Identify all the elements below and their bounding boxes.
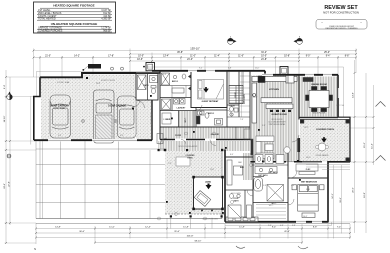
svg-text:STONE PAVERS: STONE PAVERS [316, 154, 330, 157]
svg-text:LAUNDRY: LAUNDRY [177, 107, 187, 110]
svg-text:1-CAR GARAGE: 1-CAR GARAGE [150, 112, 153, 126]
svg-text:DINING ROOM: DINING ROOM [311, 84, 326, 86]
entry landing rect on patio [176, 157, 190, 166]
svg-text:7'-4": 7'-4" [337, 227, 342, 229]
pantry walls [238, 71, 240, 117]
svg-text:3'-8": 3'-8" [292, 225, 296, 227]
svg-text:11'-8": 11'-8" [239, 227, 245, 229]
svg-text:31'-2": 31'-2" [261, 52, 267, 54]
svg-text:68'-10": 68'-10" [195, 241, 202, 243]
svg-text:HEATED SQUARE FOOTAGE: HEATED SQUARE FOOTAGE [53, 4, 94, 8]
west wall window triangles [188, 74, 192, 79]
dining east wall [337, 75, 339, 117]
svg-text:3-CAR GARAGE: 3-CAR GARAGE [50, 105, 68, 108]
svg-text:BATH 3: BATH 3 [208, 112, 214, 115]
extension verticals [33, 49, 35, 78]
angled fireplace [194, 191, 211, 207]
left circle marker [7, 92, 13, 100]
svg-text:6'-4": 6'-4" [4, 85, 6, 90]
door swing arcs [134, 100, 300, 205]
svg-text:12'-2": 12'-2" [253, 97, 258, 99]
svg-text:PATIO: PATIO [187, 157, 193, 160]
svg-text:PWDR: PWDR [229, 106, 235, 108]
svg-text:14'-10": 14'-10" [4, 115, 6, 122]
svg-text:21'-0": 21'-0" [45, 56, 51, 58]
south wing partitions [252, 150, 254, 222]
bath2 fixtures left strip [162, 73, 186, 93]
svg-text:11'-0": 11'-0" [190, 56, 196, 58]
svg-text:13'-4": 13'-4" [163, 56, 169, 58]
svg-text:3'-6": 3'-6" [163, 119, 167, 121]
svg-text:27'-8": 27'-8" [8, 181, 10, 187]
svg-text:UN-HEATED SQUARE FOOTAGE: UN-HEATED SQUARE FOOTAGE [51, 22, 98, 26]
svg-text:BATH 2: BATH 2 [172, 80, 178, 83]
laundry appliances [162, 99, 186, 110]
svg-text:BAR: BAR [240, 166, 245, 169]
master bath fixtures [254, 155, 284, 202]
svg-text:8'-0": 8'-0" [230, 154, 234, 156]
small interior texts (labels smudge) [144, 80, 312, 205]
wood hatch: south walkway band [158, 141, 250, 151]
extra right-bottom dim verticals [334, 165, 342, 239]
svg-text:4" CONC. SLAB: 4" CONC. SLAB [57, 81, 70, 84]
wic rods [256, 205, 286, 219]
porch NE step [338, 117, 350, 162]
svg-text:22'-8": 22'-8" [96, 83, 101, 85]
porch column stipple (patio fireplace porch) [165, 150, 223, 214]
roof overhang thin contour [31, 67, 344, 226]
svg-text:16'-4": 16'-4" [303, 216, 308, 218]
garage west wall + jog [34, 77, 40, 140]
walkway posts [158, 149, 189, 151]
wood hatch: mud corridor [179, 111, 194, 130]
door note blob + leader above garage wall [82, 64, 145, 71]
svg-text:10'-0" CEILING HEIGHT: 10'-0" CEILING HEIGHT [268, 121, 285, 123]
svg-text:WOOD FLOOR: WOOD FLOOR [271, 119, 283, 121]
tick marks on top chains [33, 50, 358, 63]
svg-text:14'-2": 14'-2" [74, 56, 80, 58]
powder room fixtures [230, 107, 238, 117]
svg-text:9'-0": 9'-0" [306, 56, 311, 58]
tiny circled tags along patio [158, 132, 253, 220]
svg-text:7'-4": 7'-4" [240, 119, 244, 121]
svg-text:TOTAL HEATED: TOTAL HEATED [38, 18, 56, 21]
svg-text:11'-0": 11'-0" [109, 227, 115, 229]
svg-text:139'-10": 139'-10" [190, 47, 200, 51]
svg-text:BATH: BATH [234, 200, 240, 203]
svg-text:OUTDOOR KITCHEN: OUTDOOR KITCHEN [202, 219, 218, 221]
svg-text:30'-6": 30'-6" [79, 231, 85, 233]
svg-text:14'-8": 14'-8" [353, 92, 355, 98]
scattered tiny dimension texts interior [58, 68, 311, 227]
svg-text:11'-0": 11'-0" [255, 68, 260, 70]
svg-text:19'-2": 19'-2" [304, 127, 309, 129]
svg-text:10'-8": 10'-8" [284, 56, 290, 58]
svg-text:10'-0": 10'-0" [261, 56, 267, 58]
svg-text:W.I.C.: W.I.C. [185, 117, 187, 122]
right chevrons [376, 102, 386, 107]
window gaps in exterior walls [48, 70, 340, 223]
section marker 1 top [228, 36, 237, 44]
stair well [229, 86, 243, 104]
laundry / bath2 block [160, 97, 191, 99]
svg-text:COVERED PORCH: COVERED PORCH [316, 129, 335, 131]
svg-text:KITCHEN: KITCHEN [269, 89, 279, 91]
car 3 [118, 96, 137, 138]
middle north wall [152, 70, 265, 72]
svg-text:13'-0": 13'-0" [199, 114, 204, 116]
svg-text:W.I.C.: W.I.C. [269, 205, 274, 207]
hall north wall [160, 126, 250, 128]
guest suite [191, 71, 227, 108]
svg-text:11'-8": 11'-8" [210, 169, 215, 171]
svg-text:25'-0": 25'-0" [324, 52, 330, 54]
svg-text:103'-8": 103'-8" [187, 236, 194, 238]
extra core partitions / fixtures for density [157, 71, 250, 144]
svg-text:11'-4": 11'-4" [372, 143, 374, 149]
svg-text:45'-8": 45'-8" [177, 52, 183, 54]
outdoor lounge square room on porch [194, 177, 223, 209]
garage north wall (stepped) [40, 73, 136, 77]
svg-text:11'-6": 11'-6" [238, 56, 244, 58]
svg-text:10'-6": 10'-6" [137, 59, 143, 61]
svg-text:15'-0": 15'-0" [364, 142, 366, 148]
svg-text:MUD: MUD [166, 119, 171, 121]
svg-text:9'-0": 9'-0" [120, 135, 124, 137]
svg-text:LANAI: LANAI [205, 181, 212, 184]
svg-text:9'-2": 9'-2" [199, 68, 203, 70]
svg-text:9'-0": 9'-0" [58, 135, 62, 137]
svg-text:16'-6": 16'-6" [340, 197, 342, 203]
ceiling fan in lounge [206, 184, 212, 190]
south wall of wing [225, 221, 329, 223]
bed [292, 185, 324, 218]
garage south wall [34, 139, 152, 141]
svg-text:2-CAR GARAGE: 2-CAR GARAGE [108, 105, 126, 108]
svg-text:14'-8": 14'-8" [55, 227, 61, 229]
svg-text:6'-8": 6'-8" [228, 68, 232, 70]
svg-text:SCULLERY: SCULLERY [244, 93, 246, 103]
svg-text:8'-8": 8'-8" [313, 227, 318, 229]
svg-text:21'-0": 21'-0" [187, 59, 193, 61]
dimension texts top [45, 47, 349, 62]
svg-text:968 SF: 968 SF [103, 29, 111, 32]
svg-text:RESIDENTIAL DESIGN + PLANNING: RESIDENTIAL DESIGN + PLANNING [326, 27, 358, 30]
car 1 [50, 95, 71, 138]
svg-text:20'-0": 20'-0" [353, 187, 355, 193]
bath3 fixtures [197, 111, 223, 125]
svg-text:SLOPE TO DOOR: SLOPE TO DOOR [101, 80, 116, 82]
right covered porch stipple [300, 120, 350, 162]
svg-text:GREAT ROOM: GREAT ROOM [272, 113, 287, 116]
garage east wall upper + bath [135, 73, 137, 100]
svg-text:MST BEDROOM: MST BEDROOM [301, 182, 317, 184]
bar floor hatch [243, 153, 252, 180]
kitchen/dining north wall [265, 71, 338, 75]
svg-text:MST BATH: MST BATH [258, 174, 268, 177]
south wall of great room [251, 161, 303, 163]
wood hatch: dining [300, 77, 338, 117]
svg-text:POOL BATH: POOL BATH [231, 192, 241, 195]
garage door openings [48, 139, 71, 141]
outdoor kitchen on patio south edge [226, 217, 258, 222]
bath block top (garage NE) [136, 71, 160, 73]
svg-text:4,393 SF: 4,393 SF [101, 18, 111, 21]
svg-text:WOOD FLOOR: WOOD FLOOR [313, 113, 326, 115]
wall between garage wing and core [159, 71, 161, 140]
bath3 under guest [196, 109, 227, 111]
svg-text:GALLERY: GALLERY [211, 133, 220, 136]
svg-text:11'-8": 11'-8" [183, 227, 189, 229]
svg-text:NOT FOR CONSTRUCTION: NOT FOR CONSTRUCTION [323, 11, 359, 15]
svg-text:10'-0": 10'-0" [138, 56, 144, 58]
svg-text:12'-4": 12'-4" [145, 227, 151, 229]
patio dashed edge [165, 213, 225, 215]
lounge corner posts [192, 176, 224, 210]
svg-text:FOYER: FOYER [175, 135, 182, 137]
svg-text:3'-0": 3'-0" [291, 185, 295, 187]
mud room bench [162, 113, 171, 124]
svg-text:5'-0": 5'-0" [163, 74, 167, 76]
svg-text:GUEST RETREAT: GUEST RETREAT [202, 100, 220, 103]
svg-text:CONC. SLAB: CONC. SLAB [53, 107, 65, 110]
svg-text:2'-0": 2'-0" [268, 225, 272, 227]
svg-text:9'-6": 9'-6" [262, 125, 266, 127]
west wall of wing [224, 150, 226, 222]
great room fireplace on east wall [297, 138, 300, 152]
svg-text:9'-4": 9'-4" [326, 56, 331, 58]
wood hatch: hall strip [160, 127, 251, 139]
svg-text:11'-4": 11'-4" [214, 56, 220, 58]
svg-text:17'-8": 17'-8" [108, 56, 114, 58]
dining south divider [300, 117, 339, 119]
scattered black squares (junction boxes) [86, 77, 301, 214]
car 2 pickup [94, 90, 115, 143]
stairs (horizontal treads) [230, 86, 244, 104]
svg-text:15'-6": 15'-6" [306, 157, 311, 159]
master south windows [296, 221, 306, 223]
svg-text:5'-6": 5'-6" [263, 185, 267, 187]
mst retreat sofa + steps below porch [296, 164, 318, 175]
section marker 2 top [294, 36, 303, 44]
chimney bump laundry [146, 63, 155, 71]
garage floor symbols [82, 101, 145, 123]
svg-text:21'-8": 21'-8" [261, 59, 267, 61]
pantry shelves [240, 72, 250, 118]
svg-text:41'-4": 41'-4" [284, 231, 290, 233]
svg-text:7'-2": 7'-2" [168, 163, 172, 165]
porch south / wing top east [328, 162, 350, 222]
svg-text:4'-6": 4'-6" [280, 225, 284, 227]
svg-text:FLEX: FLEX [306, 169, 311, 171]
garage bath fixtures [138, 75, 158, 94]
kitchen / great room divider [298, 75, 300, 120]
chimney bump kitchen [280, 67, 288, 75]
svg-text:8'-8": 8'-8" [345, 56, 350, 58]
svg-text:N: N [34, 247, 36, 251]
svg-text:BATH: BATH [144, 84, 150, 87]
garage stipple floor [41, 79, 83, 140]
svg-text:WOOD CEILING ABOVE: WOOD CEILING ABOVE [179, 145, 199, 148]
wood hatch: kitchen + great room [251, 76, 299, 162]
faint note texts [57, 80, 345, 221]
svg-text:12'-0" CLG: 12'-0" CLG [336, 105, 345, 107]
svg-text:9'-4": 9'-4" [272, 227, 277, 229]
svg-text:STAIR: STAIR [234, 92, 237, 98]
svg-text:MST BATH: MST BATH [268, 171, 278, 174]
svg-text:14'-2": 14'-2" [332, 193, 334, 199]
garage east wall lower [151, 100, 153, 140]
south wall of hall (with openings) [160, 139, 251, 141]
svg-text:31'-6": 31'-6" [174, 231, 180, 233]
svg-text:19'-8": 19'-8" [364, 192, 366, 198]
guest ceiling fan [203, 87, 209, 93]
svg-text:24'-4": 24'-4" [4, 183, 6, 189]
svg-text:COVERED PORCHES: COVERED PORCHES [38, 29, 63, 32]
